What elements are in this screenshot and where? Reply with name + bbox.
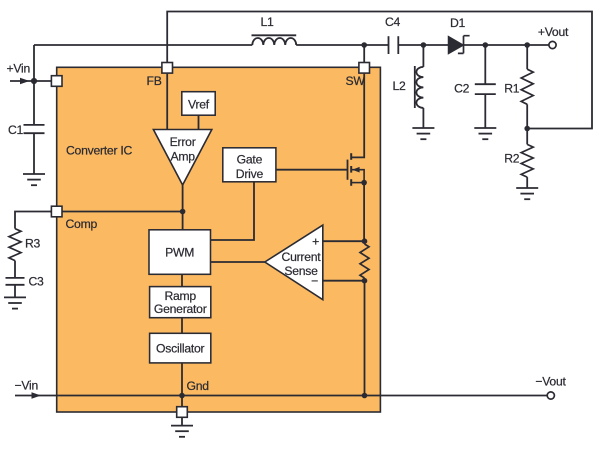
svg-text:−Vout: −Vout	[535, 375, 566, 389]
pin Gnd	[177, 407, 188, 418]
arrowhead -Vin	[32, 392, 42, 399]
svg-text:Oscillator: Oscillator	[156, 342, 204, 356]
wire: +Vin lead with arrow	[10, 80, 51, 82]
pin SW	[359, 63, 370, 74]
wire: R3 to C3	[14, 261, 16, 278]
svg-text:R1: R1	[504, 82, 520, 96]
wire: L2 to ground	[422, 108, 424, 128]
wire: C3 to ground	[14, 285, 16, 298]
svg-text:Vref: Vref	[188, 97, 210, 111]
svg-text:Comp: Comp	[66, 217, 98, 231]
svg-text:FB: FB	[147, 74, 162, 88]
svg-text:Gnd: Gnd	[187, 379, 209, 393]
ground (C1)	[23, 174, 45, 185]
svg-text:R2: R2	[504, 152, 520, 166]
node SW rail junction	[361, 42, 367, 48]
svg-text:Error: Error	[170, 135, 196, 149]
wire: FB pin to error amp	[166, 74, 168, 130]
wire: SW pin to drain	[351, 74, 364, 158]
inductor L2	[415, 66, 424, 108]
block PWM	[149, 230, 211, 274]
svg-text:Generator: Generator	[154, 302, 207, 316]
arrowhead +Vin	[20, 78, 30, 85]
svg-text:Ramp: Ramp	[164, 289, 196, 303]
capacitor C2	[475, 84, 496, 94]
inductor L1	[252, 35, 297, 45]
wire: feedback top rail	[167, 12, 592, 129]
block Oscillator	[150, 333, 211, 363]
svg-text:C1: C1	[8, 123, 24, 137]
ground (C2)	[474, 128, 496, 139]
op-amp Current Sense	[265, 225, 323, 300]
node R1 top junction	[524, 42, 530, 48]
wire: comp junction to Comp pin	[50, 211, 183, 213]
node comp junction	[180, 209, 186, 215]
op-amp Error Amp	[153, 130, 211, 186]
wire: rail to C2	[484, 45, 486, 84]
wire: gate drive to PWM	[211, 182, 255, 240]
svg-text:C2: C2	[454, 82, 470, 96]
svg-text:C4: C4	[385, 15, 401, 29]
svg-text:+Vin: +Vin	[7, 62, 31, 76]
converter IC body	[57, 67, 381, 412]
node source junction	[361, 180, 367, 186]
resistor R1	[521, 69, 533, 104]
wire: top rail to L1	[34, 44, 252, 46]
transistor Q1 (MOSFET)	[348, 153, 365, 186]
wire: oscillator to gnd	[181, 363, 183, 396]
wire: rail to R1	[526, 45, 528, 69]
terminal +Vout	[549, 41, 556, 48]
diode D1 (Schottky)	[449, 36, 470, 54]
wire: SW pin to rail	[363, 45, 365, 63]
node C2 junction	[483, 42, 489, 48]
block Vref	[182, 92, 215, 116]
svg-text:−Vin: −Vin	[15, 379, 39, 393]
wire: source to sense resistor	[363, 183, 365, 242]
wire: C1 to ground	[33, 133, 35, 174]
wire: ramp generator to oscillator	[181, 318, 183, 334]
wire: C2 to ground	[484, 94, 486, 128]
node feedback junction	[524, 126, 530, 132]
wire: Vin to C1	[33, 81, 35, 125]
node gnd junction	[179, 393, 185, 399]
svg-text:Converter IC: Converter IC	[66, 144, 133, 158]
wire: gnd junction to ground	[181, 396, 183, 426]
wire: C4 to D1	[398, 44, 448, 46]
resistor R2	[521, 144, 533, 177]
svg-text:Drive: Drive	[236, 167, 264, 181]
svg-text:Gate: Gate	[237, 153, 263, 167]
svg-text:PWM: PWM	[165, 246, 194, 260]
capacitor C3	[6, 278, 25, 285]
capacitor C4	[389, 36, 399, 54]
wire: Comp pin to R3	[15, 212, 51, 229]
ground (C3)	[4, 297, 26, 308]
ground (Gnd pin)	[171, 426, 193, 437]
resistor R3	[9, 229, 21, 261]
node sense bottom	[362, 278, 368, 284]
node L2 junction	[421, 42, 427, 48]
wire: L1 to C4	[296, 44, 388, 46]
wire: + input to sense resistor	[323, 240, 365, 242]
capacitor C1	[24, 125, 45, 133]
ground (R2)	[516, 188, 538, 199]
svg-text:C3: C3	[29, 275, 45, 289]
svg-text:+: +	[312, 235, 319, 249]
wire: - input to sense resistor	[323, 280, 365, 282]
terminal -Vout	[547, 392, 554, 399]
node sense top	[362, 238, 368, 244]
svg-text:Amp: Amp	[170, 150, 195, 164]
svg-text:L2: L2	[392, 79, 406, 93]
wire: -Vin rail to -Vout	[15, 395, 547, 397]
wire: Vref to error amp	[198, 115, 200, 129]
svg-text:D1: D1	[450, 16, 466, 30]
pin FB	[162, 63, 173, 74]
svg-text:R3: R3	[25, 237, 41, 251]
wire: rail to L2	[422, 45, 424, 67]
resistor Rsense	[360, 244, 369, 278]
wire: error amp output	[182, 185, 184, 230]
svg-text:L1: L1	[260, 15, 274, 29]
ground (L2)	[412, 128, 434, 139]
svg-text:Current: Current	[282, 250, 322, 264]
wire: D1 to +Vout	[464, 44, 550, 46]
pin Comp	[51, 206, 62, 217]
wire: Vin riser to top rail	[33, 45, 35, 81]
block Gate Drive	[223, 148, 276, 182]
wire: PWM to ramp generator	[181, 274, 183, 286]
wire: sense resistor to gnd rail	[364, 281, 366, 396]
svg-text:−: −	[311, 274, 318, 288]
svg-text:SW: SW	[346, 74, 366, 88]
pin +Vin	[51, 76, 62, 87]
node -Vout rail junction	[362, 393, 368, 399]
wire: gate drive to MOSFET gate	[276, 169, 348, 171]
wire: PWM to current sense	[211, 261, 265, 263]
node Vin junction	[31, 78, 37, 84]
block Ramp Generator	[150, 287, 211, 318]
wire: R1 to R2	[526, 104, 528, 144]
svg-text:+Vout: +Vout	[538, 25, 569, 39]
wire: R2 to ground	[526, 177, 528, 188]
